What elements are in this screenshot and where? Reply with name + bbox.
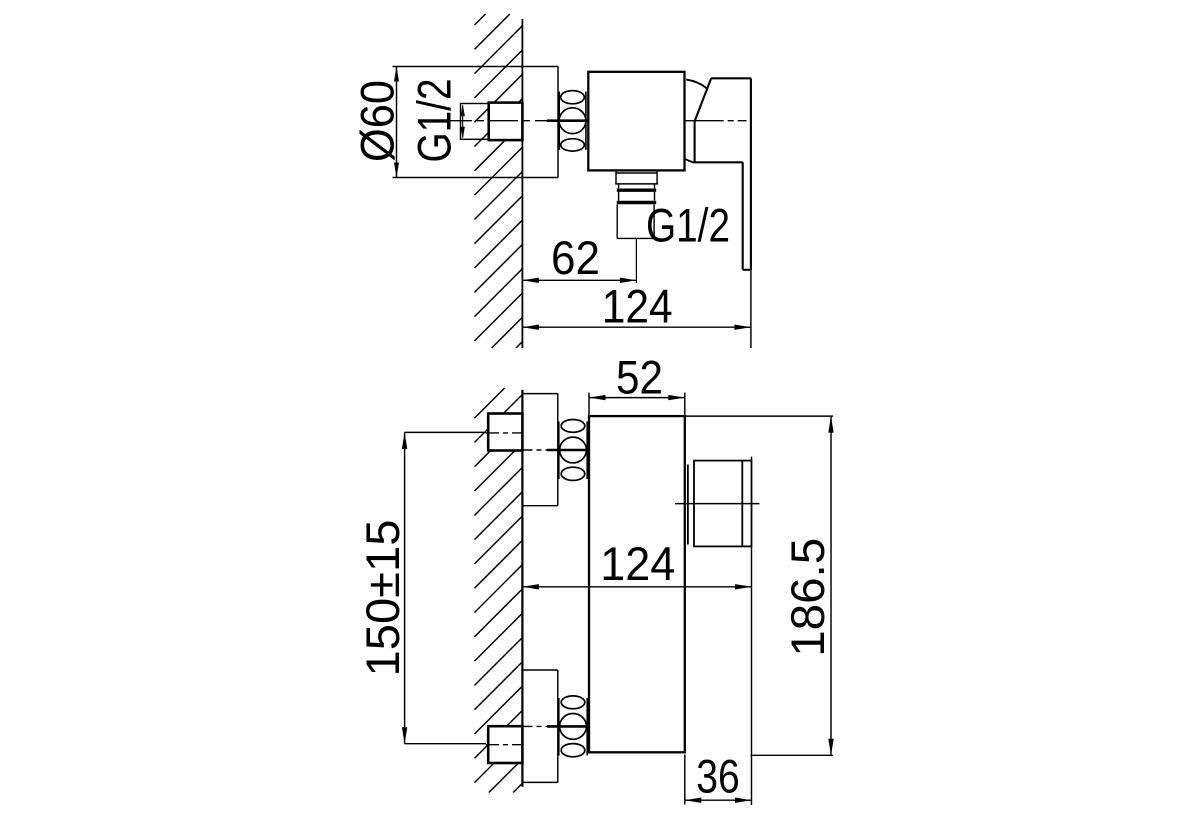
mixer body column (front view) bbox=[589, 416, 685, 752]
outlet centerline extension down to dimension (top view) bbox=[635, 238, 637, 283]
threaded wall nipple thin section (top view) bbox=[461, 104, 489, 140]
svg-text:Ø60: Ø60 bbox=[351, 80, 404, 162]
svg-text:62: 62 bbox=[551, 231, 600, 284]
wall surface line (top view) bbox=[521, 19, 523, 348]
svg-text:150±15: 150±15 bbox=[356, 520, 409, 677]
dimension 52 (front view) bbox=[589, 393, 685, 415]
G1/2 thread dimension line with arrows (inside nipple) bbox=[461, 104, 465, 138]
handle knob neck (front view) bbox=[687, 465, 689, 545]
dimension 36 (front view) bbox=[685, 755, 752, 805]
dimension 124 (top view) bbox=[522, 270, 751, 348]
centerline solid across union nut (top view) bbox=[547, 119, 591, 122]
top union nut (front view) bbox=[559, 420, 587, 481]
bottom union nut centerline (front view) bbox=[524, 725, 560, 727]
svg-text:186.5: 186.5 bbox=[781, 538, 834, 657]
top wall nipple (front view) bbox=[488, 414, 522, 451]
handle knob (front view) bbox=[694, 461, 752, 547]
handle base dome arcs (top view) bbox=[685, 80, 708, 163]
bottom union nut (front view) bbox=[559, 696, 587, 757]
shower outlet connection below body (top view) bbox=[615, 170, 658, 238]
top union nut centerline (front view) bbox=[524, 449, 560, 451]
bottom inlet centerline (front view) bbox=[486, 744, 524, 746]
union nut (top view): side lines and hex ellipses bbox=[559, 91, 586, 151]
centerline of inlet axis (top view, left segment) bbox=[443, 120, 590, 122]
dimension 150±15 (front view) bbox=[402, 432, 486, 743]
wall surface line (front view) bbox=[521, 390, 523, 787]
bottom wall nipple (front view) bbox=[488, 726, 522, 763]
dimension 62 (top view) bbox=[522, 278, 636, 283]
extension line from knob right edge down to dims (front view) bbox=[751, 457, 753, 805]
threaded wall nipple thick section through wall (top view) bbox=[489, 103, 523, 141]
svg-text:G1/2: G1/2 bbox=[646, 199, 730, 252]
wall hatching (top view) bbox=[475, 14, 523, 348]
svg-text:124: 124 bbox=[602, 280, 673, 333]
centerline of inlet axis (top view, right segment through handle) bbox=[675, 120, 747, 122]
round escutcheon flange Ø60 (top view, side) bbox=[393, 67, 559, 178]
mixer body (top view) bbox=[588, 72, 684, 171]
bottom escutcheon flange (front view) bbox=[522, 670, 557, 782]
svg-text:36: 36 bbox=[696, 749, 740, 802]
svg-text:124: 124 bbox=[600, 537, 675, 590]
dimension 186.5 (front view) bbox=[686, 416, 834, 755]
dimension 124 (front view) bbox=[522, 584, 751, 589]
top inlet centerline (front view) bbox=[486, 432, 524, 434]
handle lever (top view) bbox=[694, 78, 751, 270]
handle knob horizontal centermark (front view) bbox=[675, 503, 759, 505]
top escutcheon flange (front view) bbox=[522, 394, 557, 506]
Ø60 dimension line with arrows (escutcheon left edge) bbox=[394, 67, 399, 178]
wall hatching (front view) bbox=[475, 388, 523, 793]
svg-text:G1/2: G1/2 bbox=[407, 79, 460, 163]
svg-text:52: 52 bbox=[616, 350, 663, 403]
